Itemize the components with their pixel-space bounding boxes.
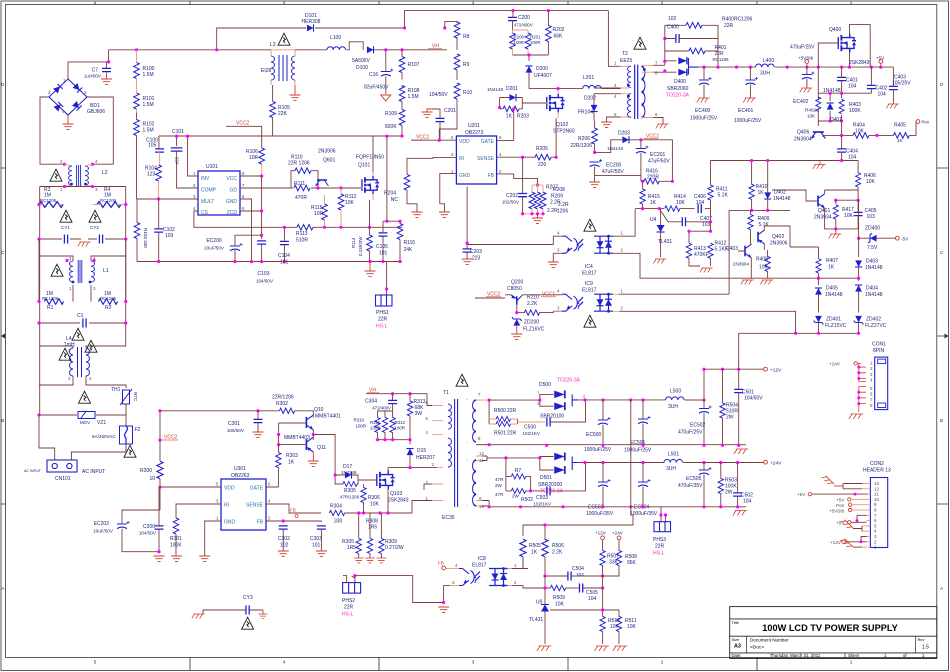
svg-text:2: 2 <box>621 248 624 253</box>
svg-text:U9: U9 <box>536 600 543 606</box>
capacitor C103 <box>257 241 266 244</box>
resistor R114 <box>367 235 373 251</box>
wire main HV rail <box>109 11 609 50</box>
svg-text:11: 11 <box>874 492 879 497</box>
capacitor CY2 <box>99 235 102 244</box>
svg-text:PHS1: PHS1 <box>376 310 389 316</box>
capacitor C203 <box>463 249 472 252</box>
svg-text:8: 8 <box>655 71 658 76</box>
svg-text:Date:: Date: <box>732 653 742 658</box>
svg-text:10R: 10R <box>249 155 259 161</box>
svg-text:1N4148: 1N4148 <box>865 292 883 298</box>
wire L4 to CN101 and TH1 <box>39 380 126 460</box>
svg-text:4: 4 <box>455 563 458 568</box>
svg-text:1N4148: 1N4148 <box>773 196 791 202</box>
svg-text:104: 104 <box>588 596 597 602</box>
inductor L500 <box>666 397 685 400</box>
diode D404 <box>855 285 862 292</box>
transformer L2 common-mode choke <box>63 163 66 166</box>
svg-text:22R: 22R <box>378 317 388 323</box>
resistor R7 <box>511 474 525 479</box>
svg-text:Q101: Q101 <box>358 163 370 169</box>
svg-text:C202: C202 <box>506 193 518 199</box>
wire VH snubber row <box>366 394 432 406</box>
svg-text:R304: R304 <box>330 504 342 510</box>
svg-text:1000uF/25V: 1000uF/25V <box>734 118 762 124</box>
svg-text:4: 4 <box>268 499 271 504</box>
resistor R300 <box>157 461 163 479</box>
svg-text:472/400V: 472/400V <box>514 23 533 28</box>
resistor R407 <box>816 259 821 273</box>
svg-text:VDD: VDD <box>224 486 235 492</box>
svg-text:1N4148: 1N4148 <box>825 292 843 298</box>
bridge rectifier BD1 <box>49 79 87 115</box>
svg-text:R405: R405 <box>894 123 906 129</box>
svg-text:105/50V: 105/50V <box>227 428 245 433</box>
svg-text:R501: R501 <box>494 431 506 437</box>
resistor R116 <box>397 224 403 240</box>
wire VH rail <box>374 49 447 51</box>
svg-text:R9: R9 <box>463 62 470 68</box>
diode D402 <box>764 192 771 199</box>
svg-text:IC4: IC4 <box>585 264 593 270</box>
svg-text:VCC2: VCC2 <box>236 121 250 127</box>
wire C7 to ground <box>106 72 108 79</box>
svg-text:6: 6 <box>874 518 877 523</box>
ground triangle under C16 <box>381 95 391 101</box>
svg-text:R205: R205 <box>536 146 548 152</box>
svg-text:3: 3 <box>870 372 873 377</box>
svg-text:+24V: +24V <box>770 461 782 467</box>
svg-text:C400: C400 <box>667 25 679 31</box>
transformer T1 secondary pins <box>466 399 468 506</box>
svg-text:Q11: Q11 <box>317 445 326 451</box>
svg-text:6: 6 <box>426 400 429 405</box>
svg-text:1: 1 <box>514 563 517 568</box>
svg-text:U301: U301 <box>234 466 246 472</box>
ground under IC4 <box>548 262 559 267</box>
svg-text:Title: Title <box>732 620 740 625</box>
svg-text:R111: R111 <box>294 181 305 187</box>
terminal -5V <box>895 236 899 240</box>
svg-text:2: 2 <box>870 366 873 371</box>
svg-text:D203: D203 <box>618 131 630 137</box>
warning triangle near VZ1 <box>79 391 91 403</box>
svg-text:A: A <box>940 586 944 591</box>
svg-text:ZCD: ZCD <box>227 210 238 216</box>
svg-text:R311: R311 <box>370 420 381 425</box>
svg-text:1000uF/35V: 1000uF/35V <box>630 511 658 517</box>
svg-text:VZ1: VZ1 <box>97 420 106 426</box>
mosfet Q103 <box>377 471 395 490</box>
shunt U4 TL431 <box>657 225 665 232</box>
capacitor C501 <box>734 389 743 392</box>
resistor R507 <box>600 550 605 565</box>
svg-text:R116: R116 <box>404 240 416 246</box>
resistor R505 <box>520 539 526 557</box>
svg-text:4: 4 <box>557 289 560 294</box>
IC U301 <box>221 479 266 530</box>
svg-text:EL817: EL817 <box>582 288 597 294</box>
wire R506 TL431 column <box>545 576 550 604</box>
svg-text:10K: 10K <box>370 502 380 508</box>
svg-text:+5V: +5V <box>836 498 845 503</box>
svg-text:1: 1 <box>621 289 624 294</box>
ground under U201 <box>439 212 450 217</box>
capacitor EC502 <box>699 406 712 414</box>
warning triangle under F2 <box>124 445 136 457</box>
svg-text:1000uF/25V: 1000uF/25V <box>690 116 718 122</box>
svg-text:ZD400: ZD400 <box>865 226 880 232</box>
svg-text:EC402: EC402 <box>793 99 809 105</box>
capacitor C505 <box>580 584 583 593</box>
svg-text:C104: C104 <box>278 253 290 259</box>
svg-text:2W: 2W <box>512 494 520 499</box>
svg-text:1: 1 <box>69 286 72 291</box>
svg-text:47R: 47R <box>495 477 504 482</box>
warning triangle above T2 <box>634 37 646 49</box>
capacitor C102 <box>154 229 163 232</box>
svg-text:T1: T1 <box>443 390 449 396</box>
svg-text:472/400V: 472/400V <box>372 406 391 411</box>
capacitor CY1 <box>64 235 67 244</box>
resistor R113 <box>297 225 313 231</box>
capacitor C202 <box>518 194 527 197</box>
wire U101 GND <box>240 199 252 262</box>
svg-text:4: 4 <box>89 376 92 381</box>
capacitor C1 <box>83 319 86 328</box>
resistor R205 <box>535 154 551 160</box>
svg-text:GATE: GATE <box>250 486 264 492</box>
svg-text:FB: FB <box>488 173 495 179</box>
svg-text:5: 5 <box>426 416 429 421</box>
svg-text:102/1KV: 102/1KV <box>522 431 541 436</box>
svg-text:EL817: EL817 <box>472 563 487 569</box>
ground under L3 <box>294 85 296 95</box>
resistor R305 <box>343 481 357 486</box>
svg-text:3UH: 3UH <box>666 466 676 472</box>
svg-text:104: 104 <box>848 84 857 90</box>
svg-text:D: D <box>1 82 5 87</box>
diode D15 <box>406 449 413 456</box>
chassis ground R408 <box>760 280 773 284</box>
resistor R417 <box>833 205 838 219</box>
svg-text:R305: R305 <box>344 488 356 494</box>
wire T1 pin1 to sense <box>412 484 432 513</box>
svg-text:FB: FB <box>257 520 264 526</box>
resistor R111 <box>294 185 310 191</box>
svg-text:L3: L3 <box>270 42 276 48</box>
svg-text:GND: GND <box>224 520 236 526</box>
svg-text:1: 1 <box>63 78 66 83</box>
capacitor C402 <box>867 85 876 88</box>
transformer L3 <box>271 50 295 85</box>
wire +5VSB rail <box>698 66 893 68</box>
wire sense bus <box>363 512 365 514</box>
ground under U301 <box>199 556 210 561</box>
terminal Pon <box>916 120 920 124</box>
capacitor C405 <box>854 212 863 215</box>
wire U101 VCC pin8 <box>240 175 262 177</box>
svg-text:1: 1 <box>193 171 196 176</box>
transformer L4 choke <box>40 323 126 380</box>
svg-text:TO220-3A: TO220-3A <box>666 93 690 99</box>
svg-text:Q401: Q401 <box>818 208 830 214</box>
svg-text:FLZ16VC: FLZ16VC <box>523 327 545 333</box>
svg-text:R505: R505 <box>529 543 541 549</box>
svg-text:101: 101 <box>379 251 388 257</box>
chassis ground R412 <box>700 268 713 272</box>
wire IC9 pin1 long <box>619 293 729 295</box>
wire 12V output row <box>578 369 764 400</box>
title block <box>730 607 937 659</box>
svg-text:CON2: CON2 <box>870 461 884 467</box>
capacitor C404 <box>837 149 846 152</box>
svg-text:3: 3 <box>216 499 219 504</box>
svg-text:2N3934: 2N3934 <box>814 215 832 221</box>
IC U101 <box>198 171 240 215</box>
svg-text:D201: D201 <box>506 86 518 92</box>
resistor R8 <box>445 21 457 50</box>
fuse F2 <box>120 426 133 444</box>
terminal +12V <box>764 367 768 371</box>
svg-text:2N3904: 2N3904 <box>733 262 750 267</box>
svg-text:+5V: +5V <box>876 56 885 61</box>
resistor R506 <box>542 539 548 557</box>
svg-text:1: 1 <box>850 0 853 5</box>
wire drain row <box>388 467 437 469</box>
svg-text:1K: 1K <box>531 550 538 556</box>
svg-text:1.5M: 1.5M <box>408 94 419 100</box>
dual diode D501 <box>554 453 565 461</box>
capacitor C500 <box>547 418 550 427</box>
svg-text:3: 3 <box>95 187 98 192</box>
svg-text:VCC2: VCC2 <box>164 435 178 441</box>
capacitor C406 <box>698 204 701 213</box>
svg-text:CS: CS <box>201 210 209 216</box>
svg-text:470uF/25V: 470uF/25V <box>678 430 703 436</box>
svg-text:R200: R200 <box>514 35 525 40</box>
svg-text:NTC: NTC <box>133 392 138 402</box>
svg-text:RI: RI <box>224 503 229 509</box>
chassis ground EC400 <box>697 98 710 102</box>
svg-text:10K: 10K <box>807 114 816 119</box>
chassis ground CY3 <box>192 614 205 618</box>
wire bridge top to C7 node <box>68 50 109 79</box>
svg-text:10: 10 <box>874 497 880 502</box>
svg-text:6: 6 <box>242 194 245 199</box>
svg-text:R303: R303 <box>286 453 298 459</box>
resistor R312 <box>390 417 395 432</box>
svg-text:EC35: EC35 <box>442 515 455 521</box>
svg-text:102/50V: 102/50V <box>502 200 520 205</box>
svg-text:1: 1 <box>60 187 63 192</box>
resistor R416 <box>644 179 659 184</box>
wire U301 GND <box>205 521 221 556</box>
svg-text:101: 101 <box>312 543 321 549</box>
svg-text:C500: C500 <box>524 425 536 431</box>
svg-text:100W LCD TV POWER SUPPLY: 100W LCD TV POWER SUPPLY <box>762 623 897 633</box>
svg-text:47R: 47R <box>495 492 504 497</box>
svg-text:1K: 1K <box>897 138 904 143</box>
chassis ground 24V bus <box>733 511 747 516</box>
svg-text:HS-L: HS-L <box>653 551 665 557</box>
svg-text:AC INPUT: AC INPUT <box>24 469 42 473</box>
svg-text:820K: 820K <box>385 124 397 130</box>
svg-text:10K: 10K <box>759 265 769 271</box>
svg-text:5: 5 <box>614 112 617 117</box>
svg-text:C301: C301 <box>228 421 240 427</box>
svg-text:10R: 10R <box>314 211 324 217</box>
svg-text:R301: R301 <box>170 536 182 542</box>
svg-text:OB2273: OB2273 <box>465 130 484 136</box>
svg-text:C303: C303 <box>310 536 322 542</box>
capacitor EC500 <box>598 417 611 425</box>
svg-text:7: 7 <box>242 183 245 188</box>
resistor R207 <box>529 192 535 209</box>
mosfet Q101 <box>362 176 379 194</box>
chassis ground T2 pin6 <box>654 118 664 125</box>
svg-text:22K: 22K <box>278 111 288 117</box>
svg-text:6: 6 <box>870 392 873 397</box>
svg-text:Q406: Q406 <box>797 130 809 136</box>
resistor R502 <box>511 488 525 493</box>
svg-text:1N4148: 1N4148 <box>607 146 624 151</box>
svg-text:2: 2 <box>661 0 664 5</box>
wire GD drive <box>240 171 361 188</box>
svg-text:D100: D100 <box>356 65 368 71</box>
chassis ground R511 <box>613 646 627 651</box>
svg-text:Rev: Rev <box>918 637 925 642</box>
svg-text:3W: 3W <box>415 411 423 417</box>
svg-text:D200: D200 <box>536 66 548 72</box>
svg-text:R506: R506 <box>552 543 564 549</box>
transistor Q403 <box>745 244 751 258</box>
capacitor C407 <box>682 217 685 226</box>
dual diode D400 <box>678 57 687 64</box>
svg-text:3: 3 <box>557 248 560 253</box>
svg-text:EC503: EC503 <box>588 505 604 511</box>
svg-text:RC1206: RC1206 <box>100 198 117 203</box>
svg-text:8: 8 <box>478 436 481 441</box>
resistor R402 <box>816 97 821 111</box>
chassis ground bus <box>813 165 826 169</box>
wire IC8 pin3 gnd <box>430 586 450 603</box>
resistor R405 <box>893 133 909 139</box>
capacitor EC200 <box>230 243 243 251</box>
svg-text:104/50V: 104/50V <box>429 92 448 98</box>
resistor R508 <box>616 550 621 565</box>
resistor R401 <box>689 48 705 54</box>
svg-text:100R: 100R <box>370 426 381 431</box>
svg-text:10K: 10K <box>676 200 686 206</box>
svg-text:C201: C201 <box>444 108 456 114</box>
svg-text:RC1206: RC1206 <box>713 57 730 62</box>
svg-text:EC500: EC500 <box>586 432 602 438</box>
wire L100 to D100 <box>346 42 363 50</box>
resistor R201 <box>525 33 531 49</box>
svg-text:2W: 2W <box>725 490 733 496</box>
inductor L400 <box>756 64 775 67</box>
svg-text:D405: D405 <box>826 286 838 292</box>
svg-text:2: 2 <box>514 580 517 585</box>
svg-text:Q400: Q400 <box>829 27 841 33</box>
svg-text:+24V: +24V <box>612 531 624 536</box>
resistor R501 <box>496 421 510 426</box>
resistor R210 <box>524 310 539 315</box>
warning triangle IC4 <box>584 219 596 231</box>
terminal +24V fb <box>617 536 621 540</box>
resistor R415 <box>640 189 645 204</box>
svg-text:R107: R107 <box>408 62 420 68</box>
svg-text:1K: 1K <box>288 460 295 466</box>
svg-text:3: 3 <box>432 462 435 467</box>
resistor R504 <box>720 403 725 418</box>
svg-text:U101: U101 <box>206 164 218 170</box>
zener ZD401 <box>814 316 824 325</box>
warning triangle L3 <box>278 33 290 45</box>
svg-text:10: 10 <box>479 504 484 509</box>
sense resistor R308 <box>356 538 361 553</box>
ground under R305b <box>365 558 375 563</box>
svg-text:2N3906: 2N3906 <box>770 241 788 247</box>
sense resistor R305b <box>367 538 372 553</box>
svg-text:L2: L2 <box>102 170 108 176</box>
svg-text:3: 3 <box>84 90 87 95</box>
chassis ground con2 pin4/5 <box>853 526 862 531</box>
capacitor EC501 <box>638 416 651 424</box>
svg-text:5: 5 <box>874 523 877 528</box>
svg-text:FR104: FR104 <box>578 110 593 116</box>
svg-text:C8050: C8050 <box>507 286 522 292</box>
wire 5v bus left <box>711 160 751 162</box>
svg-text:Q402: Q402 <box>772 234 784 240</box>
resistor R503 <box>718 478 723 493</box>
warning triangle near L4 <box>59 348 71 360</box>
svg-text:D: D <box>940 82 944 87</box>
svg-text:4: 4 <box>283 0 286 5</box>
ground under T2 pin5 <box>601 122 612 127</box>
svg-text:GND: GND <box>226 199 238 205</box>
connector PHS3 <box>661 507 666 522</box>
svg-text:GATE: GATE <box>481 139 495 145</box>
wire U301 SENSE <box>266 504 321 513</box>
resistor R104 <box>156 165 162 181</box>
svg-text:R204: R204 <box>384 191 396 197</box>
resistor R409 <box>748 214 753 229</box>
transistor Q10 <box>306 415 313 429</box>
wire U201 GND pin1 <box>440 174 457 212</box>
svg-text:R302: R302 <box>276 401 288 407</box>
capacitor EC401 <box>745 77 758 85</box>
svg-text:D401: D401 <box>830 117 842 123</box>
svg-text:F2: F2 <box>135 427 141 433</box>
svg-text:10K: 10K <box>844 213 854 219</box>
resistor R206 <box>592 128 598 144</box>
svg-text:2: 2 <box>69 256 72 261</box>
svg-text:2.2K: 2.2K <box>552 550 563 556</box>
svg-text:3: 3 <box>93 286 96 291</box>
svg-text:R500: R500 <box>494 408 506 414</box>
svg-text:CY3: CY3 <box>243 595 253 601</box>
chassis ground U4 <box>653 259 666 263</box>
svg-text:3: 3 <box>472 0 475 5</box>
svg-text:HS-L: HS-L <box>376 324 388 330</box>
svg-text:HER308: HER308 <box>302 19 321 25</box>
svg-text:C103: C103 <box>258 271 270 277</box>
wire reg mid row <box>729 210 790 294</box>
svg-text:OB2263: OB2263 <box>231 473 250 479</box>
